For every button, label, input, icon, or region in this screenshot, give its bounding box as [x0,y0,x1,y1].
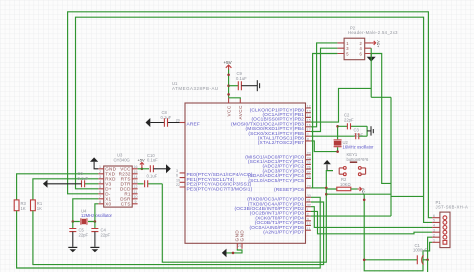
svg-text:2: 2 [307,213,309,217]
P2 pin numbers [346,41,362,57]
svg-text:23: 23 [307,152,311,156]
wire XTAL2 PB7 down to crystal bottom [311,141,338,152]
wire P1 pin1 to GND loop [364,242,432,270]
wire D+ net: CH340 D+ around top to P1 pin5 [76,17,433,222]
wire GND pins to arrow [227,249,243,253]
svg-text:VCC: VCC [226,105,231,116]
wire R1 to bottom line to PD1 (TXD0) [33,202,324,265]
svg-text:9: 9 [307,217,309,221]
svg-text:11: 11 [307,227,311,231]
svg-text:4: 4 [433,224,435,228]
svg-text:12: 12 [307,105,311,109]
svg-text:8: 8 [307,138,309,142]
P2 pin stubs [337,43,371,54]
junction dots crystal [336,125,339,128]
wire PD2 to P1 pin4 [311,207,432,228]
svg-text:0.1uF: 0.1uF [78,176,89,181]
wire P1 pin2 to +5V/C1 junction [428,237,433,260]
svg-text:10KΩ: 10KΩ [340,182,351,187]
ground arrow left of C8 [146,118,151,127]
CH340 right pin numbers [134,165,138,204]
svg-text:12MHz oscillator: 12MHz oscillator [81,213,113,218]
wire VCC to C10 [138,168,149,170]
svg-text:+5V: +5V [138,158,146,163]
junction dots at crystal [72,220,75,223]
svg-text:1K: 1K [37,206,42,211]
svg-text:3: 3 [433,228,435,232]
CH340 right pin names [119,167,132,207]
svg-text:1: 1 [433,238,435,242]
svg-text:5: 5 [99,185,101,189]
wire X1 to crystal [73,199,99,222]
svg-text:CH340G: CH340G [114,158,130,163]
CH340 left pin stubs [98,169,103,204]
svg-text:14: 14 [134,175,138,179]
svg-text:25: 25 [307,161,311,165]
ground arrow at U1 bottom [222,249,227,258]
wire PB4 MISO to P2 pin1 [311,43,338,127]
svg-text:22pF: 22pF [79,232,89,237]
svg-text:0.1uF: 0.1uF [147,173,158,178]
svg-text:2: 2 [99,170,101,174]
CH340 left pin names [105,167,116,207]
svg-text:27: 27 [307,170,311,174]
U1 right pin labels [231,107,304,235]
IC U3 CH340G [104,153,133,208]
wire trunk to W2 join [391,195,424,197]
svg-text:15: 15 [307,119,311,123]
svg-text:0.1uF: 0.1uF [236,76,247,81]
svg-text:10: 10 [134,195,138,199]
junction dots at C1 [363,259,366,262]
svg-text:(SCL0/ADC5/PTCY)PC5: (SCL0/ADC5/PTCY)PC5 [248,178,304,184]
capacitor C6 0.1uF on V3 [78,171,99,187]
capacitor C5 22pF [69,222,88,238]
junction dots on VCC wire [227,74,230,77]
svg-text:0.1uF: 0.1uF [147,157,158,162]
svg-text:(RESET)PC6: (RESET)PC6 [274,187,304,193]
+5V supply above U1 [224,60,232,70]
svg-text:11: 11 [134,190,138,194]
svg-text:29: 29 [307,185,311,189]
svg-text:Header-Male-2.54_2x3: Header-Male-2.54_2x3 [348,30,398,35]
svg-text:7: 7 [307,133,309,137]
U1 left pin AREF [180,122,185,124]
key KEY1 button6*6*6 [339,152,369,175]
svg-text:16: 16 [307,123,311,127]
svg-text:5: 5 [433,219,435,223]
wire reset row to R2 and right [326,189,391,194]
+5V supply at CH340 VCC [138,158,146,169]
wire trunk top joins MOSI column [371,96,391,98]
svg-text:26: 26 [307,166,311,170]
svg-text:13: 13 [134,180,138,184]
svg-text:24: 24 [307,156,311,160]
wire D- net: CH340 D- around top to P1 pin6 [68,12,433,218]
svg-text:PE3(PTCY/ADC7/T3/MOSI1): PE3(PTCY/ADC7/T3/MOSI1) [187,186,253,192]
svg-text:2: 2 [433,233,435,237]
U1 bottom GND pins [235,230,245,249]
svg-text:9: 9 [135,200,137,204]
svg-text:JST-S6B-XH-A: JST-S6B-XH-A [436,205,469,210]
svg-text:6: 6 [99,190,101,194]
svg-text:GND: GND [239,230,244,242]
wire KEY1 to reset junctions [326,171,333,195]
IC U1 ATMEGA328PB-AU body [172,81,306,244]
capacitor C9 0.1uF [229,71,248,90]
svg-text:16: 16 [134,165,138,169]
svg-text:21: 21 [238,244,242,248]
svg-text:16MHz oscillator: 16MHz oscillator [343,145,375,150]
svg-text:0.1uF: 0.1uF [161,115,172,120]
ground bar right of C9 [241,80,259,91]
capacitor C2 22pF [338,113,368,130]
wire P2 pin6 GND down right side [371,54,391,184]
svg-text:(XTAL2/TOSC2)PB7: (XTAL2/TOSC2)PB7 [258,140,304,146]
svg-text:10: 10 [307,222,311,226]
svg-text:30: 30 [307,194,311,198]
CH340 left pin numbers [99,165,101,204]
svg-text:31: 31 [307,199,311,203]
junction at VCC/C10 [141,168,144,171]
svg-text:8: 8 [99,200,101,204]
wire X0 to crystal [95,204,98,222]
svg-text:1: 1 [307,208,309,212]
svg-text:1000uF: 1000uF [413,248,428,253]
resistor R2 10KQ [337,177,358,191]
svg-text:15: 15 [134,170,138,174]
ground arrow above CH340 GND pin [90,157,98,168]
wire P2 pin5 RESET down to PC6 row [313,54,338,188]
svg-text:3: 3 [99,175,101,179]
wire PB5 SCK to P2 pin3 [311,48,338,131]
resistor R1 [31,200,36,211]
P1 pin stubs [432,218,440,243]
wire P2 pin4 MOSI to PB3 [370,48,372,97]
svg-text:ATMEGA328PB-AU: ATMEGA328PB-AU [172,86,219,91]
svg-text:3: 3 [176,169,178,173]
resistor R3 [14,200,19,211]
U1 right pin stubs [306,108,311,230]
wire TXD net: CH340 TXD to R3 [17,174,99,200]
wire R3 to bottom line to PD0 (RXD0) [17,197,321,268]
wire PD3 to P1 pin3 with jog [311,211,432,233]
CH340 right pin stubs [132,169,137,204]
U1 right pin numbers [307,105,311,231]
svg-text:4: 4 [99,180,101,184]
svg-text:(A2N1/PTCY)PD7: (A2N1/PTCY)PD7 [263,230,304,236]
P1 pin numbers [433,214,435,243]
U1 left pins PE0-PE3 [180,173,185,187]
svg-text:22pF: 22pF [344,118,354,123]
svg-text:6: 6 [433,214,435,218]
svg-text:17: 17 [307,128,311,132]
VCC pin stub [229,98,241,103]
capacitor C10 0.1uF [147,153,158,173]
svg-text:12: 12 [134,185,138,189]
wire C1 junction down [427,260,429,272]
svg-text:22: 22 [176,183,180,187]
svg-text:X0: X0 [105,202,111,207]
connector P1 JST-S6B-XH-A [436,200,469,248]
+5V supply at P2 pin2 [371,40,380,48]
crystal U4 12MHz oscillator [73,208,113,225]
+5V arrow right of R2 [358,187,366,195]
ground arrow left of C6 [43,180,82,188]
svg-text:CTS: CTS [121,202,131,207]
ground triangle at P2 pin6 [367,54,376,62]
svg-text:7: 7 [99,195,101,199]
wire DTR reset line along bottom [162,184,326,262]
ground bar right of C2/C3 [367,126,373,135]
svg-text:6: 6 [176,174,178,178]
wire PC6 reset row [311,187,326,189]
svg-text:28: 28 [307,175,311,179]
capacitor C7 on DTR (reset) [138,173,163,187]
capacitor C4 22pF [91,222,110,238]
wire XTAL1 PB6 to C3 row [311,135,356,137]
crystal U2 16MHz vertical [334,126,374,151]
ground arrow right of C10 [153,164,170,173]
wire PD4 to trunk [311,215,391,217]
wire +5V down to VCC/AVCC [229,70,241,100]
svg-text:22pF: 22pF [101,232,111,237]
svg-text:1: 1 [99,165,101,169]
ground under C5 [68,232,77,253]
capacitor C8 0.1uF on AREF [150,110,179,127]
ground under C4 [90,232,99,253]
wire down to C1 junction [363,194,365,260]
wire GND trunk vertical [390,97,392,216]
svg-text:+5V: +5V [224,60,232,65]
svg-text:19: 19 [176,178,180,182]
ground arrow at KEY1 [323,160,333,171]
svg-text:32: 32 [307,203,311,207]
wire RXD net: CH340 RXD to R1 [33,179,98,200]
capacitor C3 22pF [354,126,368,139]
svg-text:+5V: +5V [361,187,366,195]
capacitor C1 1000uF polarized [364,243,427,265]
svg-text:AREF: AREF [187,121,200,127]
svg-text:AVCC: AVCC [238,105,243,120]
header P2 [344,26,398,60]
svg-text:+5V: +5V [376,40,381,48]
svg-text:13: 13 [307,109,311,113]
svg-text:1K: 1K [21,206,26,211]
svg-text:14: 14 [307,114,311,118]
